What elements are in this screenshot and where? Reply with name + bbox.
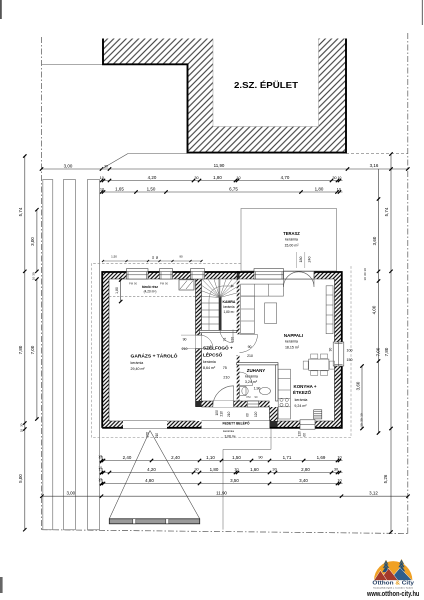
driveway triangle right line [150,431,200,519]
svg-text:GARÁZS + TÁROLÓ: GARÁZS + TÁROLÓ [131,352,179,359]
svg-text:210: 210 [227,411,231,417]
svg-text:75: 75 [223,338,227,342]
svg-text:210: 210 [247,354,253,358]
dim row 1 line [42,168,408,170]
svg-text:1,60: 1,60 [250,467,259,472]
svg-text:210: 210 [182,347,188,351]
kamra right wall lower / zuhany left wall [237,355,240,407]
right window dim line [361,366,363,429]
svg-text:90: 90 [179,255,183,259]
stair fan [200,296,220,298]
svg-text:tároló rész: tároló rész [142,285,158,289]
main building top wall [102,271,343,279]
svg-text:11,90: 11,90 [216,490,227,495]
svg-text:NAPPALI: NAPPALI [284,333,303,338]
svg-text:270: 270 [146,432,150,438]
svg-text:90: 90 [248,345,252,349]
svg-text:3,12: 3,12 [369,490,378,495]
left inner dim line lower [36,279,38,419]
kitchen bottom wall [270,421,343,429]
svg-text:kerámia: kerámia [245,374,258,378]
svg-text:1,50: 1,50 [232,455,241,460]
svg-text:30: 30 [104,164,108,168]
svg-text:18,15 m²: 18,15 m² [285,345,300,349]
svg-text:kerámia: kerámia [285,339,298,343]
svg-text:60: 60 [246,413,250,417]
svg-text:100: 100 [347,348,353,352]
svg-text:SZÉLFOGÓ +: SZÉLFOGÓ + [203,344,233,351]
svg-text:11,90: 11,90 [214,163,225,168]
kamra door opening + arc [220,330,233,343]
svg-text:4,20: 4,20 [147,467,156,472]
logo tree left [382,560,390,575]
porch front wall edges [202,401,278,421]
garage right wall [196,271,202,407]
terrace outline [241,209,337,272]
svg-text:30: 30 [31,272,35,276]
svg-text:kerámia: kerámia [223,305,234,309]
left outer dim line [24,156,26,530]
dim row 2 line [102,180,343,182]
taroló resz dashed line [109,296,196,298]
svg-text:kerámia: kerámia [295,398,308,402]
svg-text:kerámia: kerámia [223,429,234,433]
svg-text:100: 100 [215,410,219,416]
svg-text:PM 90: PM 90 [160,281,169,285]
zuhany door leaf+arc [239,372,253,386]
terrace door leaves [284,272,315,287]
neighbour building inner edge [213,39,319,127]
svg-text:1,80: 1,80 [315,187,324,192]
garage bottom wall left block [102,421,124,429]
svg-text:240: 240 [308,257,312,263]
svg-text:10: 10 [363,277,367,281]
radiator kitchen [314,410,322,419]
svg-text:(4,20 m²): (4,20 m²) [144,290,157,294]
dim row 1 leader diagonal [102,154,129,170]
terrace door opening [284,271,315,279]
hob circles [280,398,283,401]
stair window [191,269,205,279]
svg-text:15,00 m²: 15,00 m² [284,243,299,247]
svg-text:3,60: 3,60 [355,381,360,390]
sofa left [241,296,255,334]
svg-text:kerámia: kerámia [131,361,144,365]
svg-text:3,08 m²: 3,08 m² [224,435,236,439]
svg-text:4,00: 4,00 [372,305,377,314]
garage door threshold [123,420,167,422]
svg-text:4,80: 4,80 [145,478,154,483]
svg-text:29,40 m²: 29,40 m² [131,367,146,371]
zuhany wc [240,387,247,396]
svg-text:120: 120 [254,411,258,417]
front door leaf+arc [213,386,234,407]
svg-text:7,80: 7,80 [18,345,23,354]
svg-text:Otthon & City: Otthon & City [372,581,415,587]
svg-text:3,00: 3,00 [30,237,35,246]
walkway lines [222,449,224,529]
front door opening [213,401,234,407]
kamra right wall upper [237,271,240,334]
bottom dim row D [42,495,408,497]
driveway triangle left line [109,431,150,519]
svg-text:1,50: 1,50 [147,187,156,192]
garage bottom wall right block [167,421,202,429]
svg-text:ZUHANY: ZUHANY [247,368,266,373]
svg-text:7,00: 7,00 [30,345,35,354]
neighbour bottom edge extension [128,153,188,155]
wall junction dark blocks [196,271,202,279]
svg-text:30: 30 [19,423,23,427]
svg-text:4,70: 4,70 [281,175,290,180]
logo mountain left red [374,570,387,580]
svg-text:TERASZ: TERASZ [283,231,300,236]
logo sun [374,561,412,580]
svg-text:1,69: 1,69 [317,455,326,460]
svg-text:60: 60 [303,433,307,437]
svg-text:30: 30 [359,418,363,422]
svg-text:1,90: 1,90 [254,387,261,391]
svg-text:30: 30 [363,272,367,276]
main building left wall [102,271,110,428]
svg-text:10: 10 [359,423,363,427]
svg-text:3,24 m²: 3,24 m² [245,380,258,384]
mini dim line above top wall [103,260,202,262]
right inner dim line [378,169,380,433]
svg-text:120: 120 [298,431,302,437]
svg-text:7,80: 7,80 [384,347,389,356]
porch right wall [270,407,278,421]
svg-text:90: 90 [254,395,258,399]
svg-text:2,40: 2,40 [171,455,180,460]
svg-text:90: 90 [328,348,332,352]
svg-text:3,50: 3,50 [230,478,239,483]
svg-text:210: 210 [223,376,229,380]
svg-text:LÉPCSŐ: LÉPCSŐ [203,351,223,358]
svg-text:1,10: 1,10 [206,455,215,460]
porch front wall [202,401,270,407]
right lot boundary dash-dot line [407,33,409,534]
svg-text:KONYHA +: KONYHA + [294,384,317,389]
nappali window [254,269,284,279]
svg-text:1,80: 1,80 [210,467,219,472]
sofa top [241,284,284,296]
svg-text:150: 150 [347,358,353,362]
svg-text:90: 90 [183,338,187,342]
logo tree right [398,559,406,574]
dashed continuation of building bottom [346,153,408,155]
svg-text:3,40: 3,40 [299,478,308,483]
svg-text:1,65: 1,65 [115,187,124,192]
left inner dim line upper [36,210,38,272]
svg-text:1,50: 1,50 [111,255,117,259]
neighbour building hatched wing [103,39,188,65]
lot line left of neighbour building [42,63,104,65]
svg-text:10: 10 [19,429,23,433]
page corner mark top-right [421,0,423,25]
svg-text:75: 75 [223,366,227,370]
svg-text:2,80: 2,80 [301,467,310,472]
page corner mark top-left [0,0,2,19]
garage window 2 [160,269,173,279]
zuhany basin [260,387,271,394]
bottom dim row A [102,460,343,462]
gate bar [109,519,199,524]
svg-text:Szabadhidvégtől a Csendes Tado: Szabadhidvégtől a Csendes Tadom [373,586,413,589]
svg-text:5,74: 5,74 [18,207,23,216]
garage window 1 [127,269,149,279]
inner outline right rooms [202,279,335,421]
right outer dim line [390,154,392,532]
stair edge line [218,279,220,330]
svg-text:6,75: 6,75 [229,187,238,192]
svg-text:kerámia: kerámia [203,360,216,364]
svg-text:210: 210 [219,411,223,417]
svg-text:2,40: 2,40 [123,455,132,460]
svg-text:180: 180 [299,257,303,263]
eaves dashed outline [91,263,351,437]
svg-text:10: 10 [338,176,342,180]
kitchen counter [278,369,290,419]
svg-text:KAMRA: KAMRA [222,300,235,304]
svg-text:FEDETT BELÉPŐ: FEDETT BELÉPŐ [222,420,249,425]
garage 1,80 dim [120,280,122,302]
svg-text:9,24 m²: 9,24 m² [294,404,307,408]
svg-text:kerámia: kerámia [285,238,298,242]
coffee table [265,303,277,324]
svg-text:3,60: 3,60 [372,236,377,245]
svg-text:1,80: 1,80 [115,287,119,294]
svg-text:www.otthon-city.hu: www.otthon-city.hu [366,591,419,598]
zuhany top thin wall [237,363,278,365]
svg-text:210: 210 [231,337,235,343]
svg-text:PM 90: PM 90 [129,281,138,285]
chairs [311,354,318,359]
svg-text:ÉTKEZŐ: ÉTKEZŐ [293,388,312,395]
stair treads left [200,302,220,304]
nappali door leaf+arc [240,335,258,353]
svg-text:60: 60 [155,256,159,260]
svg-text:10: 10 [151,256,155,260]
logo mountain right blue [390,568,413,581]
building outer outline [102,272,342,428]
svg-text:3,00: 3,00 [66,490,75,495]
svg-text:4,20: 4,20 [148,175,157,180]
neighbour building thick outline [103,39,346,153]
garage door leader lines [181,334,196,336]
svg-text:7,00: 7,00 [375,347,380,356]
right wall window [333,342,344,366]
svg-text:8,64 m²: 8,64 m² [203,366,216,370]
kitchen left thin wall [276,365,278,401]
porch slab lines [202,420,270,422]
garage shaft box [179,280,194,290]
svg-text:10: 10 [363,268,367,272]
svg-text:210: 210 [155,433,159,439]
bottom dim row C [102,483,343,485]
garage door leaf+arc [202,335,214,349]
main building right wall [335,271,343,428]
inner outline garage [109,279,196,421]
svg-text:5,26: 5,26 [383,474,388,483]
logo mountain mid red [380,568,399,580]
terrace door jamb lines [295,252,297,268]
zuhany small window [247,401,259,407]
bottom dim row B [102,472,343,474]
svg-text:1,80 m²: 1,80 m² [224,310,235,314]
svg-text:10: 10 [31,277,35,281]
svg-text:1,80: 1,80 [213,175,222,180]
left lot boundary dash-dot line [41,37,43,530]
neighbour building hatched body [188,39,347,154]
svg-text:10: 10 [359,413,363,417]
newel wall [219,297,222,330]
nappali door opening [237,335,240,356]
stairs bottom thin wall [200,330,237,332]
svg-text:1,71: 1,71 [283,455,292,460]
svg-text:2.SZ. ÉPÜLET: 2.SZ. ÉPÜLET [234,81,298,90]
bottom lot boundary dash-dot line [42,530,408,534]
dining table [309,359,329,370]
page corner mark bottom-left [0,577,3,593]
kitchen bottom window [300,420,315,429]
svg-text:5,74: 5,74 [384,207,389,216]
driveway strips [43,180,53,530]
svg-text:3,16: 3,16 [370,163,379,168]
cabinet right [326,286,333,334]
svg-text:3,00: 3,00 [64,163,73,168]
dim row 3 line [102,191,343,193]
garage-szelfogo door opening [196,335,202,349]
svg-text:5,00: 5,00 [18,474,23,483]
stair walk line [209,286,234,330]
